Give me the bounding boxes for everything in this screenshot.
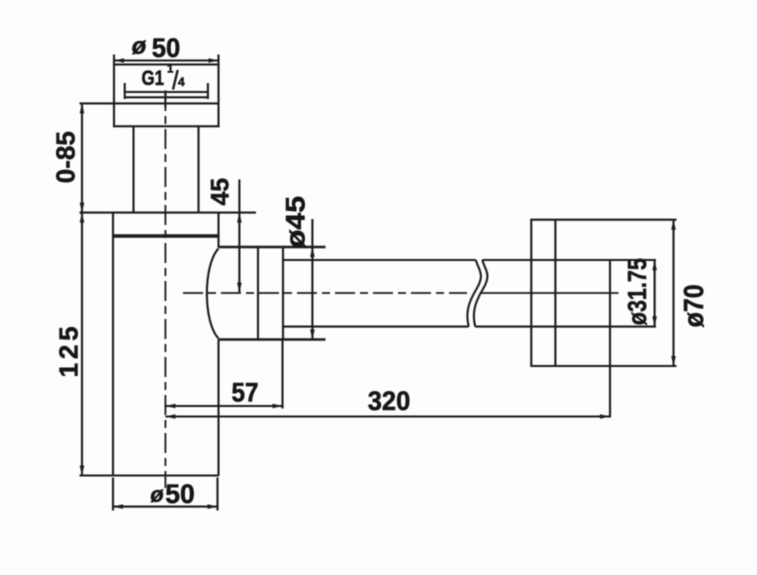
pipe bottom wall bbox=[283, 326, 656, 328]
vertical centerline of trap bbox=[164, 91, 166, 488]
extension stubs phi50 top bbox=[114, 55, 219, 65]
svg-text:ø: ø bbox=[132, 33, 147, 60]
horizontal centerline solid part bbox=[481, 292, 619, 294]
flange top line with extensions bbox=[80, 212, 257, 214]
svg-text:1: 1 bbox=[167, 64, 174, 76]
flange joint heavy line bbox=[113, 234, 219, 237]
top nut body outline bbox=[114, 65, 219, 127]
dimension line phi31.75 bbox=[654, 261, 656, 327]
label 0-85 bbox=[51, 131, 81, 183]
pipe top wall bbox=[283, 259, 656, 261]
svg-text:ø31.75: ø31.75 bbox=[622, 258, 652, 325]
dimension line 45 bbox=[238, 180, 240, 293]
svg-text:0-85: 0-85 bbox=[51, 131, 81, 183]
trap body bottom line bbox=[80, 474, 220, 476]
svg-text:50: 50 bbox=[165, 479, 194, 509]
centerline stub top bbox=[164, 91, 166, 107]
label phi50 top bbox=[132, 33, 181, 63]
svg-text:320: 320 bbox=[368, 386, 411, 416]
dimension line phi50 bottom bbox=[113, 506, 218, 508]
pipe break curve right bbox=[474, 260, 488, 327]
dimension line 320 bbox=[165, 415, 610, 417]
label 45 bbox=[207, 178, 235, 206]
wall flange bottom line with extension bbox=[530, 365, 676, 367]
label G1 1/4 bbox=[142, 64, 186, 91]
label phi70 bbox=[678, 284, 709, 327]
label 320 bbox=[368, 386, 411, 416]
dimension line phi45 bbox=[311, 219, 313, 340]
label phi45 bbox=[281, 196, 311, 248]
riser tube right wall bbox=[197, 126, 199, 212]
label phi31.75 bbox=[622, 258, 652, 325]
dimension line 57 bbox=[165, 405, 282, 407]
svg-text:G1: G1 bbox=[142, 67, 165, 90]
extension lines phi50 bottom bbox=[113, 478, 218, 511]
outlet nut right edge bbox=[282, 247, 284, 340]
wall flange inner edge bbox=[554, 220, 556, 366]
outlet nut bottom (phi45 extension) bbox=[219, 338, 326, 341]
wall flange left edge bbox=[530, 220, 532, 366]
horizontal centerline dashed part bbox=[183, 292, 467, 294]
extension line 57 bbox=[281, 341, 283, 409]
outlet opening curve bbox=[207, 249, 219, 339]
trap body right wall lower bbox=[217, 340, 219, 476]
dimension line G thread bbox=[125, 91, 208, 93]
svg-text:45: 45 bbox=[207, 178, 235, 206]
trap body left wall bbox=[112, 213, 114, 476]
dimension line 0-85 / 125 bbox=[81, 103, 83, 475]
riser tube left wall bbox=[132, 126, 134, 212]
pipe end / 320 extension line bbox=[609, 261, 611, 418]
outlet nut inner line bbox=[257, 247, 259, 340]
svg-text:57: 57 bbox=[232, 378, 259, 408]
label phi50 bottom bbox=[150, 479, 194, 509]
svg-text:125: 125 bbox=[54, 326, 84, 377]
pipe break curve left bbox=[467, 260, 481, 327]
thread root line bbox=[125, 96, 208, 98]
label 57 bbox=[232, 378, 259, 408]
svg-text:50: 50 bbox=[152, 33, 181, 63]
dimension line phi50 top bbox=[114, 59, 219, 61]
wall flange top line with extension bbox=[530, 219, 676, 221]
svg-text:ø45: ø45 bbox=[281, 196, 311, 248]
trap body right wall upper bbox=[217, 213, 219, 248]
dimension ticks G thread bbox=[125, 83, 208, 99]
outlet nut top (phi45 extension) bbox=[219, 246, 326, 249]
seat line (0-85 reference) bbox=[80, 102, 219, 104]
dimension line phi70 bbox=[672, 220, 674, 366]
fraction slash G1 1/4 bbox=[173, 70, 178, 90]
svg-text:ø70: ø70 bbox=[678, 284, 709, 327]
svg-text:ø: ø bbox=[150, 482, 164, 507]
svg-text:4: 4 bbox=[178, 75, 185, 89]
label 125 bbox=[54, 326, 84, 377]
